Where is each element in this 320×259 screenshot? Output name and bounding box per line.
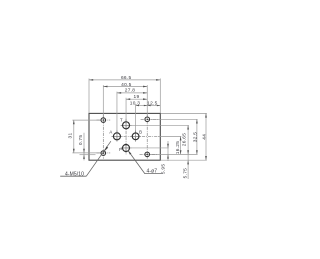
extension line port A column <box>116 92 118 133</box>
svg-text:A: A <box>109 129 112 134</box>
centerline ports A-B row <box>111 135 158 137</box>
svg-text:T: T <box>120 118 123 123</box>
svg-text:27.8: 27.8 <box>125 88 136 94</box>
extension line body bottom edge (right) <box>161 159 207 161</box>
bolt hole bottom-left M5 <box>101 151 106 156</box>
svg-text:26.65: 26.65 <box>182 133 188 146</box>
svg-text:16.25: 16.25 <box>175 141 181 154</box>
port B <box>132 133 139 140</box>
svg-text:32.5: 32.5 <box>193 132 199 143</box>
svg-text:10.3: 10.3 <box>130 100 141 106</box>
svg-text:66.5: 66.5 <box>121 75 132 81</box>
dimension 44 <box>205 113 207 160</box>
extension line port P row (right) <box>132 147 169 149</box>
extension line port B column <box>135 104 137 133</box>
bolt hole top-left M5 <box>101 118 106 123</box>
dimension 26.65 (shares line with 5.75) <box>187 125 189 179</box>
extension line bottom-right bolt row (right) <box>150 153 197 155</box>
port A <box>113 133 120 140</box>
dimension 19 <box>126 98 147 100</box>
svg-text:B: B <box>139 130 142 135</box>
leader 4-dia7 <box>128 151 145 174</box>
centerline top-left bolt row <box>97 119 111 121</box>
svg-text:5.95: 5.95 <box>161 164 167 175</box>
extension line body right edge (top) <box>159 79 161 114</box>
extension line top-right bolt row (right) <box>150 118 197 120</box>
extension line right bolt column <box>146 85 148 116</box>
dimension 32.5 <box>196 119 198 154</box>
centerline right bolt column <box>146 115 148 159</box>
svg-text:5.75: 5.75 <box>183 168 189 179</box>
extension line left bolt column <box>102 85 104 117</box>
svg-text:31: 31 <box>67 133 73 139</box>
dimension 0.75 <box>83 133 85 161</box>
extension line port T/P column <box>125 98 127 122</box>
centerline bottom-right bolt row <box>140 153 158 155</box>
dimension 31 <box>73 120 75 153</box>
centerline port P row <box>121 147 132 149</box>
svg-text:44: 44 <box>201 134 207 140</box>
leader 4-M5/10 <box>86 141 111 176</box>
extension line top-left bolt row (left) <box>72 119 101 121</box>
dimension 40.5 <box>103 86 147 88</box>
dimension 27.8 <box>117 92 147 94</box>
centerline port B vertical <box>135 130 137 142</box>
dimension 66.5 <box>89 79 160 81</box>
centerline left bolt column <box>102 115 104 159</box>
port crosshairs <box>112 120 141 153</box>
centerline top-right bolt row <box>141 118 158 120</box>
extension line port T row (right) <box>130 124 188 126</box>
svg-text:0.75: 0.75 <box>78 135 84 146</box>
dimension 10.3 <box>136 105 148 107</box>
centerline bottom-left bolt row <box>97 152 111 154</box>
dimension 5.75 <box>187 160 189 164</box>
centerline port A vertical <box>116 130 118 142</box>
extension line body left edge (top) <box>88 79 90 114</box>
valve body outline <box>89 113 160 160</box>
svg-text:4-M5/10: 4-M5/10 <box>65 172 84 178</box>
extension line body top edge (right) <box>161 112 207 114</box>
svg-text:19: 19 <box>134 94 140 100</box>
extension line ports A-B row (right) <box>158 135 181 137</box>
dimension 12.5 <box>147 105 160 107</box>
svg-text:12.5: 12.5 <box>147 100 158 106</box>
extension line bottom-left bolt row (left) <box>72 152 101 154</box>
centerline port T row <box>121 124 132 126</box>
bolt hole top-right M5 <box>145 117 150 122</box>
dimension 5.95 <box>167 141 169 161</box>
port T <box>123 122 130 129</box>
extension line bottom-right bolt row crossing left <box>80 154 96 156</box>
svg-text:40.5: 40.5 <box>121 82 132 88</box>
centerline T-P column <box>125 119 127 155</box>
svg-text:P: P <box>119 147 122 152</box>
bolt hole bottom-right M5 <box>145 152 150 157</box>
svg-text:4-ø7: 4-ø7 <box>146 169 157 175</box>
dimension 16.25 <box>180 136 182 154</box>
port P <box>123 145 130 152</box>
